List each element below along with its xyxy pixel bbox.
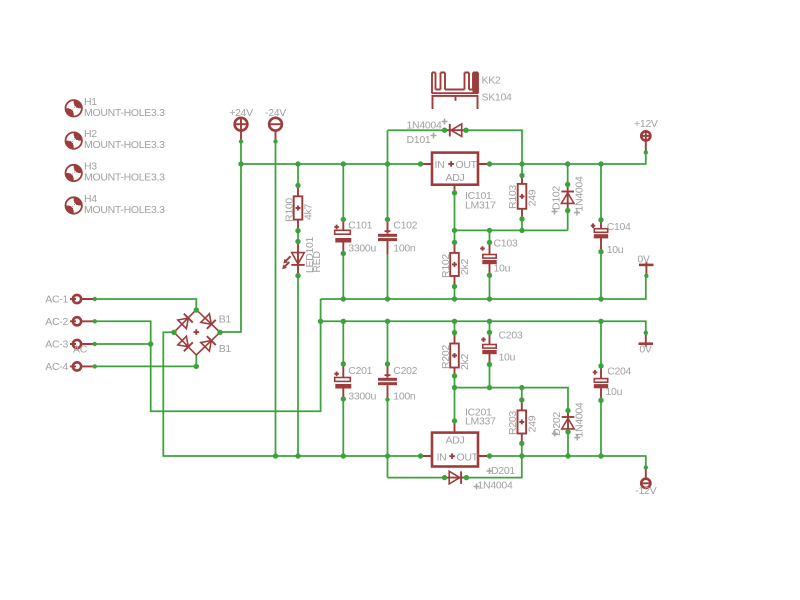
capacitor C201 3300u [334,364,376,403]
wire D102 column [567,164,569,230]
node OUT2 junctions [487,453,492,458]
svg-text:249: 249 [527,189,539,206]
node R102 pins [452,240,457,245]
node 0V link [318,319,323,324]
diode D201 1N4004 [445,465,516,491]
svg-text:1N4004: 1N4004 [573,176,585,211]
node LED101 pins [295,239,300,244]
svg-text:C102: C102 [393,219,417,231]
supply 0V bottom [639,333,654,356]
diode B1 top-left [178,314,193,329]
capacitor C202 100n [378,364,418,403]
resistor R202 2k2 [440,333,471,376]
node plus mark [194,329,200,335]
node +24V pin [239,139,243,143]
wire C202 / D201 column [387,321,389,477]
capacitor C104 10u [591,220,631,256]
wire bridge minus output to LM337 IN line [163,332,420,456]
node LM337 IN line junctions [273,453,278,458]
connector AC-3 [45,339,95,356]
svg-text:+24V: +24V [229,107,253,119]
bridge rectifier B1 [174,310,231,355]
svg-text:10u: 10u [499,352,516,364]
capacitor C101 3300u [334,219,376,254]
svg-text:R100: R100 [284,198,296,222]
supply +12V [634,118,658,152]
capacitor C204 10u [593,366,632,401]
svg-text:C104: C104 [607,221,631,233]
svg-text:B1: B1 [219,314,232,326]
svg-text:LM337: LM337 [465,416,496,428]
mount hole H3 [66,161,166,184]
wire C101 column [342,164,344,299]
svg-text:LM317: LM317 [465,200,496,212]
svg-text:R102: R102 [440,254,452,278]
wire C203 column [489,321,491,387]
svg-text:SK104: SK104 [482,92,512,104]
node centre tap T [148,341,153,346]
svg-text:MOUNT-HOLE3.3: MOUNT-HOLE3.3 [84,172,165,184]
node bridge corners [194,307,199,312]
node C101 pins [341,217,346,222]
node R203 pins [519,385,524,390]
svg-text:D202: D202 [551,412,563,436]
svg-text:3300u: 3300u [348,391,376,403]
svg-text:C103: C103 [494,238,518,250]
node R100 pins [295,183,300,188]
svg-text:AC-1: AC-1 [45,294,68,306]
node C103 pins [487,240,492,245]
svg-text:D201: D201 [491,465,515,477]
svg-text:10u: 10u [607,244,624,256]
wire AC-4 to bridge [95,355,197,366]
wire AC-3 [95,343,151,345]
wire R100 / LED101 column [297,164,299,456]
svg-text:1N4004: 1N4004 [478,479,513,491]
node C102 pin [385,217,390,222]
supply +24V [229,107,253,142]
wire C103 column [489,230,491,299]
wire +24V bus / IC101 IN line [241,163,421,165]
svg-text:100n: 100n [393,242,416,254]
node -24V pin [273,139,277,143]
node 0V bus1 junctions [341,296,346,301]
node D202 pins [565,408,570,413]
wire D202 bottom [567,432,569,456]
svg-text:10u: 10u [606,386,623,398]
svg-text:D101: D101 [407,134,431,146]
node bus1 +24V corner [238,161,243,166]
svg-text:0V: 0V [637,254,650,266]
diode B1 bottom-left [178,336,193,351]
wire C201 column [342,321,344,456]
node R103 pins [519,173,524,178]
wire 0V bus top section [321,276,646,299]
diode B1 bottom-right [201,336,216,351]
svg-text:ADJ: ADJ [446,172,465,184]
svg-text:D102: D102 [551,186,563,210]
svg-text:KK2: KK2 [482,75,501,87]
heatsink KK2 SK104 [432,73,512,110]
wire -24V rail down to LM337 input line [275,142,277,457]
node C204 pins [598,363,603,368]
svg-text:C204: C204 [607,366,631,378]
wire ADJ node IC201 [455,388,569,411]
svg-text:R103: R103 [507,185,519,209]
node D201 pins [442,475,447,480]
wire R203 column [521,388,523,456]
svg-text:AC-3: AC-3 [45,339,68,351]
node OUT line junctions [487,161,492,166]
wire C104 column [600,164,602,299]
resistor R100 4k7 [284,186,315,231]
wire AC-1 to bridge [95,299,197,310]
wire +24V rail down to bridge + output [219,142,241,333]
svg-text:B1: B1 [219,343,232,355]
svg-text:IN: IN [435,159,445,171]
wire R103 column [521,164,523,230]
svg-text:C202: C202 [393,365,417,377]
wire 0V bus bottom section [321,321,646,333]
svg-text:249: 249 [526,415,538,432]
connector AC-2 [45,316,95,328]
svg-text:MOUNT-HOLE3.3: MOUNT-HOLE3.3 [84,204,165,216]
diode D101 1N4004 [407,119,467,147]
wire ADJ node IC101 [455,193,568,299]
node C203 pins [487,330,492,335]
svg-text:MOUNT-HOLE3.3: MOUNT-HOLE3.3 [84,107,165,119]
svg-text:10u: 10u [494,263,511,275]
svg-text:C101: C101 [348,219,372,231]
diode D202 1N4004 [551,402,586,440]
LED LED101 RED [282,236,323,275]
svg-text:0V: 0V [639,344,652,356]
mount hole H1 [66,96,166,119]
diode B1 top-right [201,314,216,329]
diode D102 1N4004 [551,176,586,215]
svg-text:1N4004: 1N4004 [407,120,442,132]
svg-text:IN: IN [437,451,447,463]
svg-text:1N4004: 1N4004 [574,402,586,437]
node C201 pins [341,361,346,366]
node D102 pins [565,182,570,187]
node R202 pins [452,330,457,335]
resistor R103 249 [507,176,539,220]
svg-text:-24V: -24V [265,107,286,119]
svg-text:R202: R202 [440,345,452,369]
capacitor C203 10u [481,329,523,364]
svg-text:R203: R203 [507,411,519,435]
node ADJ1 junctions [452,190,457,195]
svg-text:C201: C201 [348,365,372,377]
connector AC-1 [45,294,95,306]
wire D201 bypass loop [388,456,522,478]
svg-text:ADJ: ADJ [446,434,465,446]
mount hole H4 [66,193,166,216]
node C104 pins [598,217,603,222]
node C202 pins [385,361,390,366]
supply -12V [635,468,656,497]
wire 0V link to centre tap [151,299,321,411]
capacitor C102 100n [378,219,418,254]
svg-text:MOUNT-HOLE3.3: MOUNT-HOLE3.3 [84,139,165,151]
resistor R102 2k2 [440,242,471,286]
mount hole H2 [66,128,166,151]
wire AC-2 [95,321,151,344]
wire C102 / D101 column [387,130,389,299]
svg-text:4k7: 4k7 [303,204,315,220]
supply 0V top [637,254,653,276]
wire C204 column [600,321,602,456]
connector AC-4 [45,361,95,373]
svg-text:OUT: OUT [456,159,478,171]
svg-text:OUT: OUT [457,451,479,463]
op-amp-style regulator IC101 LM317 [421,153,497,212]
svg-text:-12V: -12V [635,485,656,497]
svg-text:+12V: +12V [634,118,658,130]
wire D101 bypass loop [388,130,523,164]
wire R202 ADJ column [454,321,456,421]
svg-text:3300u: 3300u [348,242,376,254]
node D101 pins [442,128,447,133]
supply -24V [265,107,286,142]
node AC pins [93,297,97,301]
svg-text:RED: RED [311,251,323,273]
op-amp-style regulator IC201 LM337 [421,407,497,467]
svg-text:2k2: 2k2 [459,259,471,275]
wire IC201 OUT line to -12V [490,456,646,468]
svg-text:AC: AC [73,344,88,356]
svg-text:AC-2: AC-2 [45,316,68,328]
wire IC101 OUT line to +12V [490,152,646,164]
svg-text:C203: C203 [499,329,523,341]
svg-text:AC-4: AC-4 [45,361,68,373]
svg-text:100n: 100n [393,391,416,403]
resistor R203 249 [507,400,539,444]
svg-text:2k2: 2k2 [459,354,471,370]
capacitor C103 10u [480,238,518,276]
node 0V bus2 junctions [341,319,346,324]
